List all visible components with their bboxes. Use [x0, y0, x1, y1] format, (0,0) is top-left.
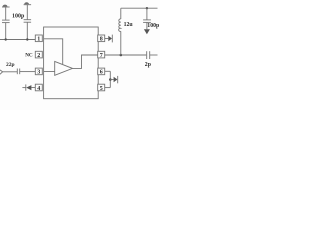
wire input to C3 — [3, 71, 18, 73]
svg-text:3: 3 — [37, 70, 40, 76]
internal wire pin1 to op-amp top — [44, 39, 63, 64]
wire C5 to right edge — [150, 54, 158, 56]
capacitor C4 (100p to ground) — [143, 8, 151, 29]
svg-text:6: 6 — [100, 70, 103, 76]
svg-text:8: 8 — [100, 37, 103, 43]
terminal at pin 8 (right arrow + bar) — [105, 35, 113, 43]
svg-text:2: 2 — [37, 53, 40, 59]
capacitor C3 (22p series) — [17, 69, 19, 75]
junction dot at C2 — [26, 38, 28, 40]
svg-text:4: 4 — [37, 86, 40, 92]
wire to pin 4 — [31, 87, 35, 89]
op-amp IC U1 body — [44, 27, 99, 99]
junction dot inductor/pin7 — [120, 54, 123, 57]
svg-text:100p: 100p — [147, 23, 159, 29]
pin 1 — [35, 35, 42, 43]
wire pin 5 to tie bar — [105, 87, 111, 89]
wire top-left horizontal to pin 1 — [0, 39, 35, 41]
svg-text:100p: 100p — [12, 14, 25, 20]
tie wire pins 5-6 — [109, 71, 111, 87]
pin 7 — [98, 51, 105, 59]
svg-text:5: 5 — [100, 86, 103, 92]
junction dot at C1 — [5, 38, 7, 40]
input terminal (chevron) — [0, 70, 3, 74]
junction dot output tie — [109, 78, 112, 81]
svg-text:1: 1 — [37, 37, 40, 43]
svg-text:7: 7 — [100, 53, 103, 59]
svg-text:12u: 12u — [124, 22, 134, 28]
inductor L1 12u — [119, 8, 121, 55]
junction dot at C4 top — [146, 7, 148, 9]
pin 8 — [98, 35, 105, 43]
internal wire pin3 to op-amp input — [44, 71, 55, 73]
terminal at pins 5/6 (right arrow + bar) — [110, 76, 117, 83]
op-amp triangle — [55, 61, 73, 75]
pin 6 — [98, 68, 105, 76]
wire pin 6 to tie bar — [105, 70, 111, 72]
ground (arrow) — [144, 29, 150, 34]
svg-text:NC: NC — [25, 52, 33, 58]
capacitor C5 (2p series) — [147, 51, 150, 59]
svg-text:2p: 2p — [145, 62, 151, 68]
wire top-right horizontal — [121, 7, 158, 9]
capacitor C2 (trimmer, top-left second) — [24, 2, 32, 39]
wire pin 7 to C5 — [105, 54, 147, 56]
pin 3 — [35, 68, 42, 76]
pin 5 — [98, 84, 105, 92]
wire C3 to pin 3 — [20, 71, 36, 73]
capacitor C1 (trimmer, top-left) — [2, 5, 10, 40]
svg-text:22p: 22p — [6, 62, 15, 68]
pin 4 — [35, 84, 42, 92]
internal wire op-amp output to pin 7 — [73, 55, 98, 68]
pin 2 — [35, 51, 42, 59]
terminal at pin 4 (bar + left arrow) — [22, 84, 31, 90]
